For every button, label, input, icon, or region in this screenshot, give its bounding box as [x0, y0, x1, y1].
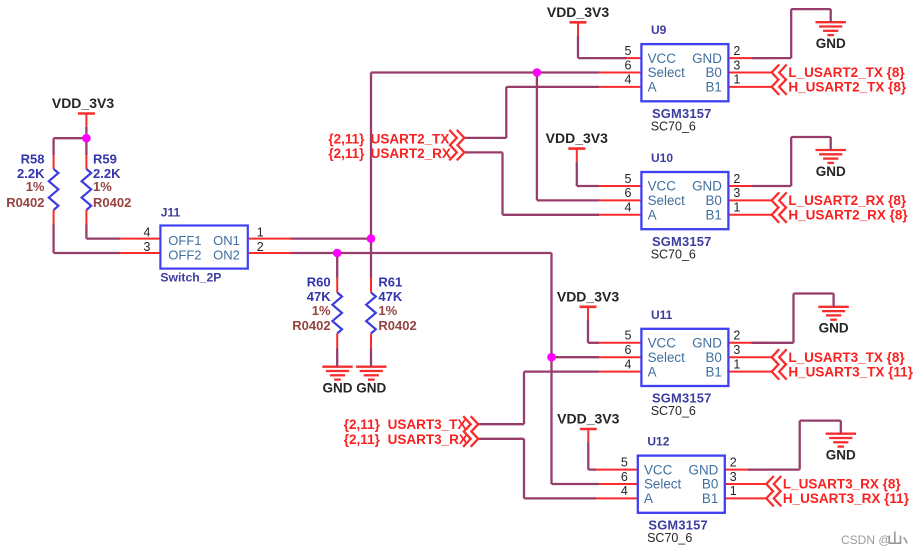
svg-text:VDD_3V3: VDD_3V3	[557, 411, 619, 427]
svg-text:SC70_6: SC70_6	[651, 247, 696, 261]
svg-text:VCC: VCC	[648, 51, 677, 66]
svg-text:A: A	[648, 364, 657, 379]
svg-text:GND: GND	[323, 381, 353, 396]
svg-text:R0402: R0402	[93, 195, 131, 210]
svg-text:CSDN @: CSDN @	[841, 533, 891, 547]
svg-text:Switch_2P: Switch_2P	[160, 271, 221, 285]
svg-text:H_USART2_TX {8}: H_USART2_TX {8}	[788, 80, 907, 95]
svg-text:R58: R58	[21, 151, 45, 166]
svg-text:B1: B1	[706, 208, 722, 223]
svg-text:Select: Select	[644, 477, 681, 492]
svg-text:USART3_TX: USART3_TX	[388, 417, 467, 432]
svg-text:SC70_6: SC70_6	[647, 531, 692, 545]
svg-text:Select: Select	[648, 350, 685, 365]
svg-text:4: 4	[624, 201, 631, 215]
svg-text:U11: U11	[651, 308, 673, 322]
svg-text:H_USART3_TX {11}: H_USART3_TX {11}	[788, 364, 913, 379]
svg-text:6: 6	[624, 186, 631, 200]
svg-text:GND: GND	[692, 336, 722, 351]
svg-text:2: 2	[733, 44, 740, 58]
svg-text:{2,11}: {2,11}	[328, 146, 365, 161]
svg-text:1: 1	[733, 357, 740, 371]
svg-text:47K: 47K	[307, 289, 331, 304]
svg-text:USART2_RX: USART2_RX	[371, 146, 451, 161]
svg-text:L_USART3_TX {8}: L_USART3_TX {8}	[788, 350, 905, 365]
svg-text:R60: R60	[307, 275, 331, 290]
svg-text:USART2_TX: USART2_TX	[371, 131, 450, 146]
svg-text:4: 4	[624, 357, 631, 371]
svg-text:1: 1	[733, 73, 740, 87]
svg-text:B0: B0	[706, 350, 722, 365]
svg-text:U12: U12	[647, 435, 669, 449]
svg-text:OFF2: OFF2	[168, 247, 201, 262]
svg-text:5: 5	[624, 329, 631, 343]
svg-text:1%: 1%	[26, 179, 45, 194]
svg-text:R61: R61	[378, 275, 402, 290]
svg-text:SC70_6: SC70_6	[651, 404, 696, 418]
svg-text:R59: R59	[93, 151, 117, 166]
svg-text:47K: 47K	[378, 289, 402, 304]
svg-text:{2,11}: {2,11}	[344, 432, 381, 447]
svg-text:1%: 1%	[312, 303, 331, 318]
svg-text:VCC: VCC	[648, 336, 677, 351]
svg-text:VCC: VCC	[648, 179, 677, 194]
svg-text:{2,11}: {2,11}	[344, 417, 381, 432]
svg-text:GND: GND	[692, 51, 722, 66]
svg-text:B1: B1	[706, 364, 722, 379]
svg-text:5: 5	[624, 172, 631, 186]
svg-text:B1: B1	[702, 491, 718, 506]
svg-text:1%: 1%	[378, 303, 397, 318]
svg-text:3: 3	[733, 186, 740, 200]
svg-text:2: 2	[733, 329, 740, 343]
svg-text:R0402: R0402	[292, 318, 330, 333]
svg-text:Select: Select	[648, 193, 685, 208]
svg-text:SC70_6: SC70_6	[651, 120, 696, 134]
svg-text:GND: GND	[826, 448, 856, 463]
svg-text:H_USART2_RX {8}: H_USART2_RX {8}	[788, 208, 908, 223]
svg-text:B0: B0	[702, 477, 718, 492]
svg-text:4: 4	[621, 484, 628, 498]
svg-text:2: 2	[257, 240, 264, 254]
svg-text:3: 3	[730, 470, 737, 484]
svg-text:GND: GND	[816, 164, 846, 179]
svg-text:1%: 1%	[93, 179, 112, 194]
svg-text:USART3_RX: USART3_RX	[388, 432, 468, 447]
svg-text:VDD_3V3: VDD_3V3	[547, 4, 609, 20]
svg-text:B0: B0	[706, 193, 722, 208]
svg-text:A: A	[644, 491, 653, 506]
svg-text:L_USART2_TX {8}: L_USART2_TX {8}	[788, 65, 905, 80]
svg-text:6: 6	[624, 343, 631, 357]
svg-text:GND: GND	[816, 36, 846, 51]
svg-text:H_USART3_RX {11}: H_USART3_RX {11}	[783, 491, 910, 506]
svg-text:A: A	[648, 208, 657, 223]
svg-text:1: 1	[730, 484, 737, 498]
svg-text:VDD_3V3: VDD_3V3	[52, 95, 114, 111]
svg-text:1: 1	[257, 225, 264, 239]
svg-text:3: 3	[733, 58, 740, 72]
svg-text:L_USART3_RX {8}: L_USART3_RX {8}	[783, 477, 902, 492]
svg-text:3: 3	[143, 240, 150, 254]
svg-text:6: 6	[621, 470, 628, 484]
svg-text:GND: GND	[692, 179, 722, 194]
svg-text:B1: B1	[706, 80, 722, 95]
svg-text:5: 5	[621, 455, 628, 469]
svg-text:R0402: R0402	[378, 318, 416, 333]
svg-text:J11: J11	[161, 206, 181, 220]
svg-text:ON2: ON2	[213, 247, 240, 262]
svg-text:U10: U10	[651, 151, 673, 165]
svg-text:Select: Select	[648, 65, 685, 80]
svg-text:5: 5	[624, 44, 631, 58]
svg-text:A: A	[648, 80, 657, 95]
svg-text:3: 3	[733, 343, 740, 357]
svg-text:GND: GND	[356, 381, 386, 396]
svg-text:6: 6	[624, 58, 631, 72]
svg-text:4: 4	[624, 73, 631, 87]
svg-text:GND: GND	[689, 462, 719, 477]
svg-text:{2,11}: {2,11}	[328, 131, 365, 146]
svg-text:2: 2	[733, 172, 740, 186]
svg-text:GND: GND	[819, 321, 849, 336]
svg-text:VCC: VCC	[644, 462, 673, 477]
svg-text:VDD_3V3: VDD_3V3	[546, 130, 608, 146]
svg-text:U9: U9	[651, 23, 667, 37]
svg-text:1: 1	[733, 201, 740, 215]
svg-text:4: 4	[143, 225, 150, 239]
svg-text:B0: B0	[706, 65, 722, 80]
svg-text:OFF1: OFF1	[168, 233, 201, 248]
svg-text:L_USART2_RX {8}: L_USART2_RX {8}	[788, 193, 907, 208]
svg-text:VDD_3V3: VDD_3V3	[557, 288, 619, 304]
svg-text:ON1: ON1	[213, 233, 240, 248]
svg-text:R0402: R0402	[6, 195, 44, 210]
svg-text:2: 2	[730, 455, 737, 469]
